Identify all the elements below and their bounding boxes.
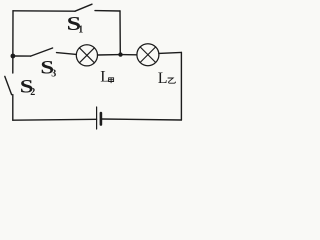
switch S3 blade	[31, 48, 53, 56]
battery positive plate (long thin)	[96, 107, 98, 129]
battery negative plate (short thick)	[100, 113, 103, 125]
label L1 subscript jia (drawn)	[109, 78, 114, 83]
lamp L2 cross	[140, 47, 156, 63]
lamp L1 cross	[79, 48, 94, 63]
wire bottom right to battery	[101, 119, 181, 120]
wire top-left horizontal	[13, 10, 75, 12]
lamp L1 (circle)	[76, 45, 97, 66]
wire S3 to lamp L1	[57, 53, 77, 55]
wire battery to bottom left	[13, 118, 97, 121]
svg-text:L: L	[158, 70, 168, 87]
lamp L2 (circle)	[137, 44, 159, 66]
wire left vertical lower	[12, 95, 14, 121]
switch S1 blade	[75, 4, 92, 11]
node A (junction dot left)	[11, 54, 16, 59]
wire middle from left node to S3	[13, 55, 31, 57]
node B (junction dot middle)	[118, 52, 122, 56]
switch S2 blade	[5, 76, 12, 94]
wire lamp L1 to node B	[98, 54, 121, 56]
wire node B to lamp L2	[120, 54, 136, 56]
wire top-right horizontal	[95, 10, 120, 12]
svg-text:2: 2	[30, 87, 35, 98]
wire top-right vertical drop	[119, 11, 121, 55]
label L2 subscript yi (drawn)	[168, 78, 176, 83]
svg-text:1: 1	[78, 24, 83, 35]
svg-text:L: L	[100, 68, 110, 85]
wire left vertical upper	[12, 11, 14, 73]
svg-text:3: 3	[51, 69, 56, 80]
wire lamp L2 to right corner	[159, 52, 182, 53]
wire right vertical	[180, 52, 182, 120]
